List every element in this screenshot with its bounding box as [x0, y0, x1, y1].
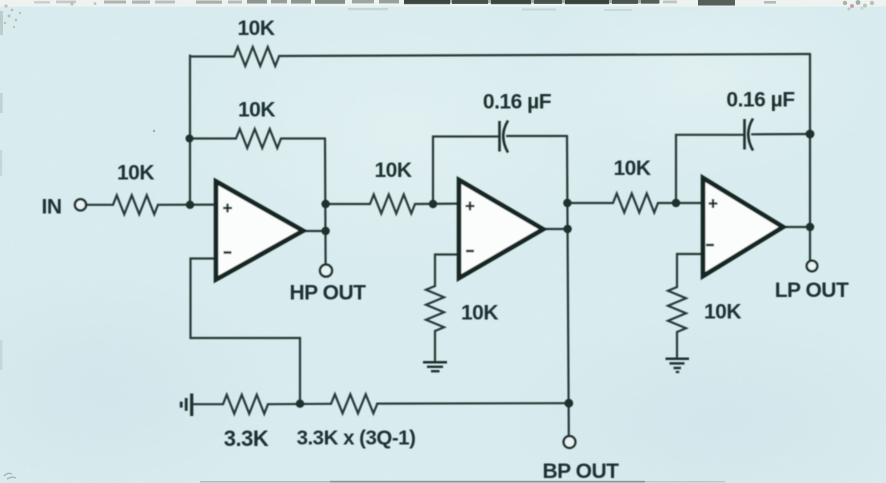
svg-text:3.3K x (3Q-1): 3.3K x (3Q-1): [297, 426, 416, 449]
svg-text:10K: 10K: [374, 159, 411, 182]
HP OUT terminal: [320, 265, 332, 277]
wire: IN terminal to input resistor: [86, 204, 113, 206]
svg-text:10K: 10K: [237, 17, 274, 40]
junction: U1 + input node: [186, 201, 194, 209]
junction: summing node on bottom rail: [296, 400, 304, 408]
junction: U3 output on LP column: [806, 223, 814, 231]
junction: mid feedback tap on riser: [186, 135, 194, 143]
resistor 10K mid feedback: [236, 129, 281, 148]
resistor 10K U3 ground leg: [668, 287, 686, 332]
ground under U2 leg: [423, 362, 447, 371]
svg-text:0.16 µF: 0.16 µF: [726, 89, 795, 112]
wire: bottom rail between resistors: [268, 403, 331, 406]
ground (rotated) at summing rail: [181, 394, 192, 417]
junction: U2 output on BP column: [563, 225, 571, 233]
svg-text:HP OUT: HP OUT: [290, 282, 367, 305]
wire: HP column vertical: [324, 139, 327, 265]
wire: interstage resistor to op-amp U3 + input: [658, 202, 704, 204]
wire: capacitor C1 left riser: [433, 137, 498, 205]
capacitor C1: [500, 121, 509, 153]
wire: BP node to interstage resistor: [567, 202, 613, 204]
svg-text:10K: 10K: [613, 157, 650, 180]
wire: top feedback long run to LP column: [279, 54, 810, 56]
wire: bottom rail ground to 3.3K: [193, 403, 224, 405]
wire: node A vertical feedback riser: [189, 56, 191, 205]
resistor 10K input: [113, 195, 158, 214]
resistor 3.3K: [223, 395, 268, 414]
resistor 10K U2 ground leg: [426, 286, 444, 331]
svg-text:10K: 10K: [117, 162, 154, 185]
svg-text:BP OUT: BP OUT: [543, 460, 620, 483]
LP OUT terminal: [807, 261, 818, 272]
junction: C2 right on LP column: [806, 130, 815, 139]
bottom-left corner smudge: [4, 473, 16, 479]
tan speckles top left corner: [4, 2, 97, 28]
wire: capacitor C2 right segment: [752, 133, 810, 136]
capacitor C2: [745, 119, 754, 151]
colour speckles top right: [843, 0, 874, 10]
ground under U3 leg: [666, 359, 690, 372]
svg-text:LP OUT: LP OUT: [775, 279, 849, 302]
wire: U2 - input to Q resistor: [435, 255, 460, 287]
junction: U1 output on HP column: [321, 227, 329, 235]
IN terminal: [75, 199, 86, 210]
resistor 10K top feedback: [234, 47, 279, 66]
op-amp U2: [459, 180, 543, 278]
svg-text:IN: IN: [42, 196, 62, 219]
wire: U1 output stub: [302, 230, 326, 232]
top border band: [0, 0, 886, 370]
wire: top feedback left segment: [190, 55, 234, 57]
svg-text:10K: 10K: [238, 99, 275, 122]
U3 + input marker: [709, 199, 718, 208]
wire: U2 output stub: [543, 228, 567, 230]
svg-text:10K: 10K: [461, 302, 498, 325]
U1 + input marker: [223, 204, 232, 213]
wire: HP node to interstage resistor: [326, 203, 370, 205]
wire: Q resistor to ground: [434, 331, 436, 361]
wire: mid feedback left segment: [189, 137, 236, 139]
wire: U3 output stub: [783, 226, 810, 228]
svg-text:10K: 10K: [704, 301, 741, 324]
junction: BP node on main line: [563, 199, 571, 207]
wire: U1 - input loop down to summing node: [191, 259, 301, 404]
stray paper speck: [153, 130, 155, 132]
U2 - input marker: [466, 250, 474, 253]
bottom border line: [330, 481, 645, 483]
wire: mid feedback to HP column: [281, 137, 325, 139]
U3 - input marker: [706, 244, 714, 247]
junction: HP node on main line: [321, 200, 329, 208]
svg-text:3.3K: 3.3K: [224, 426, 269, 451]
left edge smudges: [0, 11, 3, 35]
wire: U3 - input to ground resistor: [677, 254, 704, 287]
wire: bottom rail to BP column: [377, 402, 569, 405]
wire: interstage resistor to op-amp U2 + input: [415, 203, 460, 206]
junction: U2 + input node: [429, 200, 437, 208]
BP OUT terminal: [564, 436, 576, 448]
U2 + input marker: [466, 202, 475, 211]
resistor 10K interstage 1-2: [370, 195, 415, 214]
junction: U3 + input node: [672, 199, 680, 207]
wire: BP column vertical: [567, 136, 569, 437]
U1 - input marker: [224, 251, 232, 254]
op-amp U1: [216, 182, 303, 280]
junction: BP column meets bottom rail: [564, 399, 573, 408]
resistor 10K interstage 2-3: [613, 194, 658, 213]
wire: input resistor to op-amp U1 + input: [158, 204, 217, 206]
wire: LP output column: [809, 54, 811, 261]
wire: U3 resistor to ground: [676, 332, 678, 357]
svg-text:0.16 µF: 0.16 µF: [483, 91, 552, 114]
wire: capacitor C2 left riser: [676, 135, 743, 203]
wire: capacitor C1 right to BP column: [507, 135, 567, 137]
op-amp U3: [703, 178, 783, 276]
resistor 3.3K x (3Q-1): [331, 394, 377, 413]
